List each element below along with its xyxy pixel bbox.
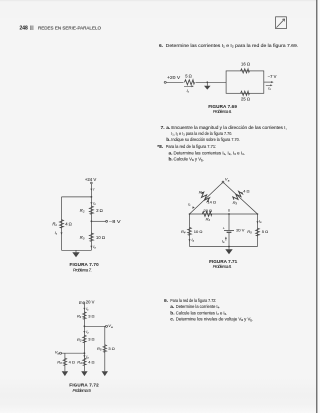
svg-text:−7 V: −7 V [268, 74, 277, 79]
svg-text:R₅: R₅ [97, 346, 102, 351]
svg-text:R₄: R₄ [77, 360, 82, 365]
svg-text:Calcule las corrientes I₂ e I₆: Calcule las corrientes I₂ e I₆. [176, 310, 228, 316]
svg-text:Determine la corriente I₄.: Determine la corriente I₄. [176, 304, 221, 310]
svg-text:R₂: R₂ [77, 337, 82, 342]
svg-text:R₁: R₁ [52, 222, 57, 227]
svg-text:4 Ω: 4 Ω [69, 359, 75, 364]
svg-text:248: 248 [20, 25, 29, 31]
svg-text:16 Ω: 16 Ω [241, 61, 250, 66]
svg-text:c.: c. [170, 317, 174, 322]
svg-text:5 Ω: 5 Ω [262, 229, 268, 234]
svg-text:4 Ω: 4 Ω [88, 359, 94, 364]
svg-text:+: + [223, 226, 225, 230]
svg-text:Problema 8.: Problema 8. [213, 264, 232, 269]
svg-text:+24 V: +24 V [85, 177, 97, 182]
svg-text:a.: a. [170, 305, 174, 310]
svg-text:20 Ω: 20 Ω [204, 208, 213, 213]
svg-text:R₅: R₅ [247, 229, 252, 234]
svg-text:Indique su dirección sobre la: Indique su dirección sobre la figura 7.7… [171, 137, 240, 143]
svg-text:5 Ω: 5 Ω [185, 73, 192, 78]
svg-text:R₃: R₃ [57, 360, 62, 365]
svg-text:Determine los niveles de volta: Determine los niveles de voltaje Vₐ y Vb… [176, 316, 253, 322]
svg-text:FIGURA 7.72: FIGURA 7.72 [69, 383, 99, 388]
svg-text:Determine las corrientes I₁, I: Determine las corrientes I₁, I₂, I₃ e I₄… [174, 150, 246, 156]
svg-text:REDES EN SERIE-PARALELO: REDES EN SERIE-PARALELO [38, 25, 101, 30]
svg-text:b: b [228, 209, 230, 213]
svg-text:Problema 9.: Problema 9. [73, 388, 92, 393]
svg-text:R₃: R₃ [233, 200, 238, 205]
svg-text:Calcule Vₐ y Vb.: Calcule Vₐ y Vb. [174, 156, 205, 162]
svg-text:20 V: 20 V [86, 300, 95, 305]
svg-text:Determine las corrientes I₁ e: Determine las corrientes I₁ e I₂ para la… [166, 43, 299, 49]
svg-text:25 Ω: 25 Ω [241, 96, 250, 101]
svg-text:Problema 7.: Problema 7. [73, 267, 92, 272]
svg-text:6.: 6. [159, 43, 163, 49]
svg-text:R₄: R₄ [181, 229, 186, 234]
svg-text:R₁: R₁ [77, 313, 82, 318]
svg-text:3 Ω: 3 Ω [88, 313, 94, 318]
svg-text:+20 V: +20 V [167, 75, 180, 80]
svg-text:Para la red de la figura 7.72:: Para la red de la figura 7.72: [170, 298, 216, 304]
svg-text:|||: ||| [30, 25, 34, 30]
svg-text:R₁: R₁ [199, 189, 204, 194]
svg-text:4 Ω: 4 Ω [243, 188, 249, 193]
svg-text:3 Ω: 3 Ω [88, 337, 94, 342]
svg-text:7.: 7. [161, 125, 165, 131]
svg-text:a.: a. [166, 126, 170, 131]
svg-text:2 Ω: 2 Ω [96, 208, 103, 213]
svg-text:Problema 6.: Problema 6. [213, 109, 232, 114]
svg-text:9.: 9. [164, 298, 168, 304]
svg-text:3 Ω: 3 Ω [108, 346, 114, 351]
svg-text:Encuentre la magnitud y la dir: Encuentre la magnitud y la dirección de … [171, 125, 286, 131]
svg-text:R₂: R₂ [80, 208, 85, 213]
svg-text:R₃: R₃ [80, 235, 85, 240]
svg-text:I₁, I₂ e I₃ para la red de la: I₁, I₂ e I₃ para la red de la figura 7.7… [171, 131, 232, 137]
svg-text:Para la red de la figura 7.71:: Para la red de la figura 7.71: [166, 144, 217, 150]
svg-text:10 Ω: 10 Ω [96, 235, 105, 240]
svg-text:*8.: *8. [157, 144, 163, 150]
svg-text:−8 V: −8 V [109, 219, 121, 224]
svg-text:20 V: 20 V [236, 228, 245, 233]
svg-text:10 Ω: 10 Ω [194, 229, 203, 234]
svg-text:14 Ω: 14 Ω [207, 200, 216, 205]
svg-text:E: E [79, 300, 82, 305]
svg-text:b.: b. [170, 310, 174, 316]
svg-text:a.: a. [169, 151, 173, 156]
svg-text:b.: b. [166, 137, 170, 143]
svg-text:b.: b. [169, 156, 173, 162]
svg-text:4 Ω: 4 Ω [65, 221, 72, 226]
svg-text:R₂: R₂ [206, 217, 211, 222]
